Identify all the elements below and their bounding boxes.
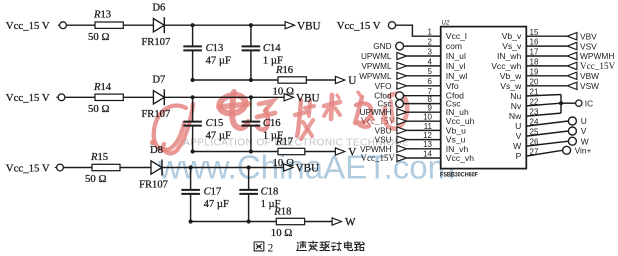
svg-text:Vcc_15V: Vcc_15V xyxy=(361,153,396,163)
net label U pin 24 xyxy=(581,116,587,126)
terminal circle pin 24 xyxy=(568,117,576,125)
net arrow pin 13 xyxy=(397,145,407,152)
svg-text:R15: R15 xyxy=(90,152,108,163)
net arrow pin 16 xyxy=(567,42,577,49)
node junction row 1 col2 xyxy=(249,23,253,27)
wire xyxy=(248,168,250,190)
pin number 5 xyxy=(428,67,433,76)
net label VSW pin 20 xyxy=(580,81,599,91)
pin number 2 xyxy=(428,38,433,47)
terminal circle row 2 xyxy=(56,94,65,101)
pin number 26 xyxy=(530,138,539,147)
capacitor C17 xyxy=(181,190,200,194)
label C17 xyxy=(204,187,222,198)
node junction rail 2 col1 xyxy=(191,149,195,153)
label R16 xyxy=(275,65,293,76)
pin number 10 xyxy=(423,113,432,122)
svg-text:Vcc_15 V: Vcc_15 V xyxy=(337,20,381,32)
svg-text:WPWML: WPWML xyxy=(359,72,392,81)
svg-text:C17: C17 xyxy=(204,187,222,198)
wire xyxy=(164,24,285,26)
svg-text:14: 14 xyxy=(423,149,432,158)
svg-text:VBU: VBU xyxy=(297,20,321,32)
pin name Vcc_wh xyxy=(491,61,521,71)
svg-text:VPWML: VPWML xyxy=(361,62,391,71)
svg-text:R17: R17 xyxy=(275,136,293,147)
pin name Vb_w xyxy=(500,71,522,81)
diode D8 xyxy=(151,160,162,176)
svg-text:V: V xyxy=(581,126,587,136)
svg-text:Vb_v: Vb_v xyxy=(502,31,522,41)
svg-text:16: 16 xyxy=(530,38,539,47)
pin name Vcc_uh xyxy=(446,116,475,126)
pin name Nv xyxy=(511,101,522,111)
net arrow pin 20 xyxy=(567,82,577,89)
svg-text:Vcc_15V: Vcc_15V xyxy=(361,116,396,126)
svg-text:R13: R13 xyxy=(93,10,111,21)
svg-text:4: 4 xyxy=(428,57,433,66)
label R14 xyxy=(93,82,112,93)
svg-text:50 Ω: 50 Ω xyxy=(85,173,107,185)
wire xyxy=(191,221,277,223)
wire xyxy=(306,79,335,81)
svg-text:10 Ω: 10 Ω xyxy=(273,85,295,97)
net arrow pin 17 xyxy=(567,52,577,59)
svg-text:FSBB30CH60F: FSBB30CH60F xyxy=(440,171,478,178)
pin name Vs_w xyxy=(500,81,522,91)
resistor R13 xyxy=(95,22,123,28)
resistor R14 xyxy=(95,94,123,100)
net label VPWML pin 4 xyxy=(361,62,391,71)
value C18 xyxy=(261,199,281,210)
label C16 xyxy=(263,118,281,129)
wire xyxy=(407,139,441,141)
wire xyxy=(193,151,278,153)
wire xyxy=(407,65,441,67)
terminal circle row 3 xyxy=(55,164,64,171)
wire xyxy=(561,102,576,104)
pin name Csc xyxy=(446,99,462,109)
watermark gray text xyxy=(183,138,409,149)
svg-text:P: P xyxy=(516,151,522,161)
net arrow pin 4 xyxy=(397,62,407,69)
node junction rail 1 col1 xyxy=(191,78,195,82)
watermark red char zi xyxy=(257,101,275,130)
wire xyxy=(120,167,151,169)
svg-text:IN_vl: IN_vl xyxy=(446,61,466,71)
watermark red char wei xyxy=(355,92,373,127)
pin name Vfo xyxy=(446,81,459,91)
svg-text:13: 13 xyxy=(423,140,432,149)
net label U xyxy=(348,75,356,87)
svg-text:VFO: VFO xyxy=(375,82,392,91)
svg-text:10: 10 xyxy=(423,113,432,122)
wire xyxy=(407,120,441,122)
svg-text:U: U xyxy=(348,75,356,87)
svg-text:20: 20 xyxy=(530,77,539,86)
label FSBB30CH60F xyxy=(440,171,478,178)
capacitor C18 xyxy=(239,190,258,194)
svg-text:VBV: VBV xyxy=(580,31,597,41)
wire xyxy=(407,111,441,113)
pin number 18 xyxy=(530,58,539,67)
svg-text:C15: C15 xyxy=(206,118,224,129)
net label VSU pin 12 xyxy=(375,136,392,145)
svg-text:C18: C18 xyxy=(261,187,279,198)
pin number 15 xyxy=(530,28,539,37)
capacitor C16 xyxy=(242,122,261,126)
wire xyxy=(396,25,441,36)
svg-text:U2: U2 xyxy=(442,19,450,26)
wire xyxy=(192,25,194,46)
label D6 xyxy=(152,3,165,14)
net label WPWML pin 5 xyxy=(359,72,392,81)
net label Vcc_15V row 2 xyxy=(6,92,50,104)
svg-text:Vb_w: Vb_w xyxy=(500,71,522,81)
terminal circle IC pin1 xyxy=(388,22,395,29)
svg-text:5: 5 xyxy=(428,67,433,76)
net label Cfod pin 7 xyxy=(374,92,392,101)
pin name IN_vh xyxy=(446,144,469,154)
svg-text:Nv: Nv xyxy=(511,101,522,111)
svg-text:FR107: FR107 xyxy=(139,179,168,190)
svg-text:Vcc_15V: Vcc_15V xyxy=(580,61,616,71)
pin name P xyxy=(516,151,522,161)
resistor R18 xyxy=(276,218,304,224)
pin name Nu xyxy=(510,91,521,101)
pin name Cfod xyxy=(446,91,464,101)
pin name Vs_v xyxy=(502,41,522,51)
svg-text:Vs_v: Vs_v xyxy=(502,41,522,51)
value 50 ohm R14 xyxy=(88,103,110,115)
net label Vcc_15V pin 18 xyxy=(580,61,616,71)
net arrow pin 6 xyxy=(397,82,407,89)
net label Vcc_15V pin 10 xyxy=(361,116,396,126)
value 50 ohm R13 xyxy=(88,31,110,43)
pin number 8 xyxy=(428,95,433,104)
label R17 xyxy=(275,136,293,147)
wire xyxy=(526,141,568,146)
net label VBU pin 11 xyxy=(375,126,392,135)
wire xyxy=(63,167,92,169)
terminal circle pin 2 xyxy=(396,42,404,50)
value C16 xyxy=(263,131,283,142)
svg-text:W: W xyxy=(345,217,356,229)
pin number 21 xyxy=(530,88,539,97)
node junction row 2 col2 xyxy=(249,95,253,99)
pin name V xyxy=(516,131,522,141)
wire xyxy=(65,96,95,98)
terminal circle pin 27 xyxy=(563,146,571,154)
svg-text:IN_wh: IN_wh xyxy=(497,51,522,61)
svg-text:18: 18 xyxy=(530,58,539,67)
svg-text:W: W xyxy=(513,141,522,151)
svg-text:VSW: VSW xyxy=(580,81,599,91)
svg-text:47 µF: 47 µF xyxy=(204,199,229,210)
pin number 16 xyxy=(530,38,539,47)
value C17 xyxy=(204,199,229,210)
wire xyxy=(190,194,192,222)
net arrow pin 10 xyxy=(397,118,407,125)
svg-text:6: 6 xyxy=(428,77,433,86)
terminal circle pin 8 xyxy=(396,100,404,108)
value 10 ohm R16 xyxy=(273,85,295,97)
node junction rail 3 col1 xyxy=(189,219,193,223)
svg-text:Vfo: Vfo xyxy=(446,81,459,91)
net label Vcc_15V row 1 xyxy=(6,20,50,32)
pin number 14 xyxy=(423,149,432,158)
net arrow pin 14 xyxy=(397,155,407,162)
wire xyxy=(123,24,153,26)
svg-text:50 Ω: 50 Ω xyxy=(88,103,110,115)
svg-text:C13: C13 xyxy=(206,43,224,54)
wire xyxy=(123,96,153,98)
label C14 xyxy=(263,43,281,54)
value 50 ohm R15 xyxy=(85,173,107,185)
net label VSV pin 16 xyxy=(580,41,597,51)
pin name Vb_u xyxy=(446,125,466,135)
wire xyxy=(193,79,278,81)
wire xyxy=(248,194,250,222)
svg-text:VBU: VBU xyxy=(296,93,320,105)
wire xyxy=(407,129,441,131)
wire xyxy=(526,121,568,126)
svg-text:C14: C14 xyxy=(263,43,281,54)
pin number 3 xyxy=(428,47,433,56)
svg-text:Vcc_vh: Vcc_vh xyxy=(446,153,474,163)
terminal circle pin 26 xyxy=(568,137,576,145)
wire xyxy=(404,103,441,105)
wire xyxy=(250,25,252,46)
resistor R17 xyxy=(278,148,305,154)
net label VBU row 1 xyxy=(297,20,321,32)
svg-text:1: 1 xyxy=(428,28,433,37)
value C15 xyxy=(206,131,231,142)
net label Csc pin 8 xyxy=(377,100,391,109)
wire xyxy=(192,97,194,121)
node junction Nu Nv Nw xyxy=(559,101,563,105)
svg-text:R14: R14 xyxy=(93,82,112,93)
net label GND pin 2 xyxy=(373,42,391,51)
node junction row 3 col2 xyxy=(247,165,251,169)
svg-text:15: 15 xyxy=(530,28,539,37)
svg-text:11: 11 xyxy=(424,122,433,131)
terminal circle row 1 xyxy=(58,22,67,29)
wire xyxy=(526,85,567,87)
svg-text:U: U xyxy=(581,116,587,126)
pin number 7 xyxy=(428,87,433,96)
svg-text:Vcc_15 V: Vcc_15 V xyxy=(6,92,50,104)
wire xyxy=(164,96,284,98)
net arrow pin 15 xyxy=(567,33,577,40)
net label V pin 25 xyxy=(581,126,587,136)
label D8 xyxy=(150,145,163,156)
resistor R16 xyxy=(278,77,306,83)
svg-text:WPWMH: WPWMH xyxy=(580,51,614,61)
pin name Vs_u xyxy=(446,135,466,145)
svg-text:VBW: VBW xyxy=(580,71,599,81)
op-amp U2 IC body FSBB30CH60F xyxy=(441,27,527,169)
node junction rail 3 col2 xyxy=(247,219,251,223)
svg-text:50 Ω: 50 Ω xyxy=(88,31,110,43)
value C14 xyxy=(263,55,283,66)
node junction rail 2 col2 xyxy=(249,149,253,153)
net arrow pin 11 xyxy=(397,127,407,134)
svg-text:2: 2 xyxy=(268,243,274,255)
pin name IN_ul xyxy=(446,51,466,61)
pin number 22 xyxy=(530,98,539,107)
wire xyxy=(526,95,561,117)
watermark red char ji xyxy=(295,100,314,139)
label R15 xyxy=(90,152,108,163)
wire xyxy=(526,45,567,47)
pin name com xyxy=(446,41,462,51)
wire xyxy=(192,126,194,152)
node junction rail 1 col2 xyxy=(249,78,253,82)
watermark red char shu xyxy=(324,95,340,119)
pin number 6 xyxy=(428,77,433,86)
svg-text:VSU: VSU xyxy=(375,136,392,145)
svg-text:IN_wl: IN_wl xyxy=(446,71,468,81)
diode D6 xyxy=(153,17,164,33)
pin name Vcc_l xyxy=(446,31,467,41)
wire xyxy=(407,55,441,57)
svg-text:R18: R18 xyxy=(273,206,291,217)
value FR107 D6 xyxy=(141,37,170,48)
pin number 19 xyxy=(530,67,539,76)
net arrow W xyxy=(332,218,341,225)
net label V xyxy=(348,147,356,159)
pin number 4 xyxy=(428,57,433,66)
svg-text:Vcc_wh: Vcc_wh xyxy=(491,61,521,71)
wire xyxy=(526,75,567,77)
net arrow VBU row 1 xyxy=(285,22,294,29)
label R13 xyxy=(93,10,111,21)
wire xyxy=(407,148,441,150)
wire xyxy=(526,65,567,67)
pin number 17 xyxy=(530,48,539,57)
pin number 25 xyxy=(530,128,539,137)
value C13 xyxy=(206,55,231,66)
pin number 13 xyxy=(423,140,432,149)
svg-text:Vcc_15 V: Vcc_15 V xyxy=(6,162,50,174)
wire xyxy=(407,157,441,159)
svg-text:2: 2 xyxy=(428,38,433,47)
pin name Vb_v xyxy=(502,31,522,41)
net label WPWMH pin 17 xyxy=(580,51,614,61)
wire xyxy=(404,45,441,47)
wire xyxy=(526,150,562,156)
svg-text:17: 17 xyxy=(530,48,539,57)
pin name IN_wl xyxy=(446,71,468,81)
wire xyxy=(404,95,441,97)
svg-text:V: V xyxy=(516,131,522,141)
svg-text:47 µF: 47 µF xyxy=(206,131,231,142)
net label UPWMH pin 9 xyxy=(360,108,392,117)
node junction row 3 col1 xyxy=(189,165,193,169)
svg-text:9: 9 xyxy=(428,104,433,113)
pin number 24 xyxy=(530,118,539,127)
value FR107 D7 xyxy=(141,109,170,120)
net label VPWMH pin 13 xyxy=(360,145,391,154)
net arrow pin 12 xyxy=(397,136,407,143)
wire xyxy=(526,131,568,136)
svg-text:IC: IC xyxy=(585,98,593,108)
pin name IN_uh xyxy=(446,107,469,117)
wire xyxy=(190,168,192,190)
net label UPWML pin 3 xyxy=(361,52,392,61)
node junction row 1 col1 xyxy=(191,23,195,27)
svg-text:Vcc_15 V: Vcc_15 V xyxy=(6,20,50,32)
pin name W xyxy=(513,141,522,151)
pin number 11 xyxy=(424,122,433,131)
label C15 xyxy=(206,118,224,129)
net label VBW pin 19 xyxy=(580,71,599,81)
pin number 20 xyxy=(530,77,539,86)
resistor R15 xyxy=(92,164,120,170)
wire xyxy=(66,24,95,26)
terminal circle IC net xyxy=(576,100,582,106)
pin number 1 xyxy=(428,28,433,37)
pin number 27 xyxy=(530,148,539,157)
net arrow pin 19 xyxy=(567,72,577,79)
svg-text:Vin+: Vin+ xyxy=(575,146,592,156)
value 10 ohm R18 xyxy=(271,227,293,239)
watermark blue url xyxy=(157,149,455,186)
wire xyxy=(526,35,567,37)
net label W xyxy=(345,217,356,229)
svg-text:Vs_w: Vs_w xyxy=(500,81,522,91)
wire xyxy=(407,75,441,77)
net arrow pin 18 xyxy=(567,62,577,69)
svg-text:47 µF: 47 µF xyxy=(206,55,231,66)
net label Vcc_15V row 3 xyxy=(6,162,50,174)
svg-text:3: 3 xyxy=(428,47,433,56)
wire xyxy=(407,85,441,87)
net label IC xyxy=(585,98,593,108)
svg-text:19: 19 xyxy=(530,67,539,76)
svg-text:Vcc_l: Vcc_l xyxy=(446,31,467,41)
svg-text:Nu: Nu xyxy=(510,91,521,101)
pin name U xyxy=(515,121,521,131)
net arrow U xyxy=(335,76,344,83)
pin name IN_wh xyxy=(497,51,522,61)
wire xyxy=(526,55,567,57)
svg-text:R16: R16 xyxy=(275,65,293,76)
net label Vcc_15V at IC pin1 xyxy=(337,20,381,32)
svg-text:com: com xyxy=(446,41,462,51)
watermark red char swirl xyxy=(384,94,407,129)
net arrow VBU row 2 xyxy=(284,94,293,101)
net label VBU row 3 xyxy=(296,163,320,175)
net label Vin+ pin 27 xyxy=(575,146,592,156)
net label VBU row 2 xyxy=(296,93,320,105)
pin number 12 xyxy=(423,131,432,140)
node junction row 2 col1 xyxy=(191,95,195,99)
terminal circle pin 7 xyxy=(396,92,404,100)
net label W pin 26 xyxy=(581,136,589,146)
value FR107 D8 xyxy=(139,179,168,190)
svg-text:IN_ul: IN_ul xyxy=(446,51,466,61)
wire xyxy=(250,97,252,121)
net arrow VBU row 3 xyxy=(284,164,293,171)
wire xyxy=(250,126,252,152)
pin number 23 xyxy=(530,108,539,117)
wire xyxy=(192,50,194,80)
capacitor C15 xyxy=(183,122,202,126)
net label Vcc_15V pin 14 xyxy=(361,153,396,163)
svg-text:UPWML: UPWML xyxy=(361,52,392,61)
